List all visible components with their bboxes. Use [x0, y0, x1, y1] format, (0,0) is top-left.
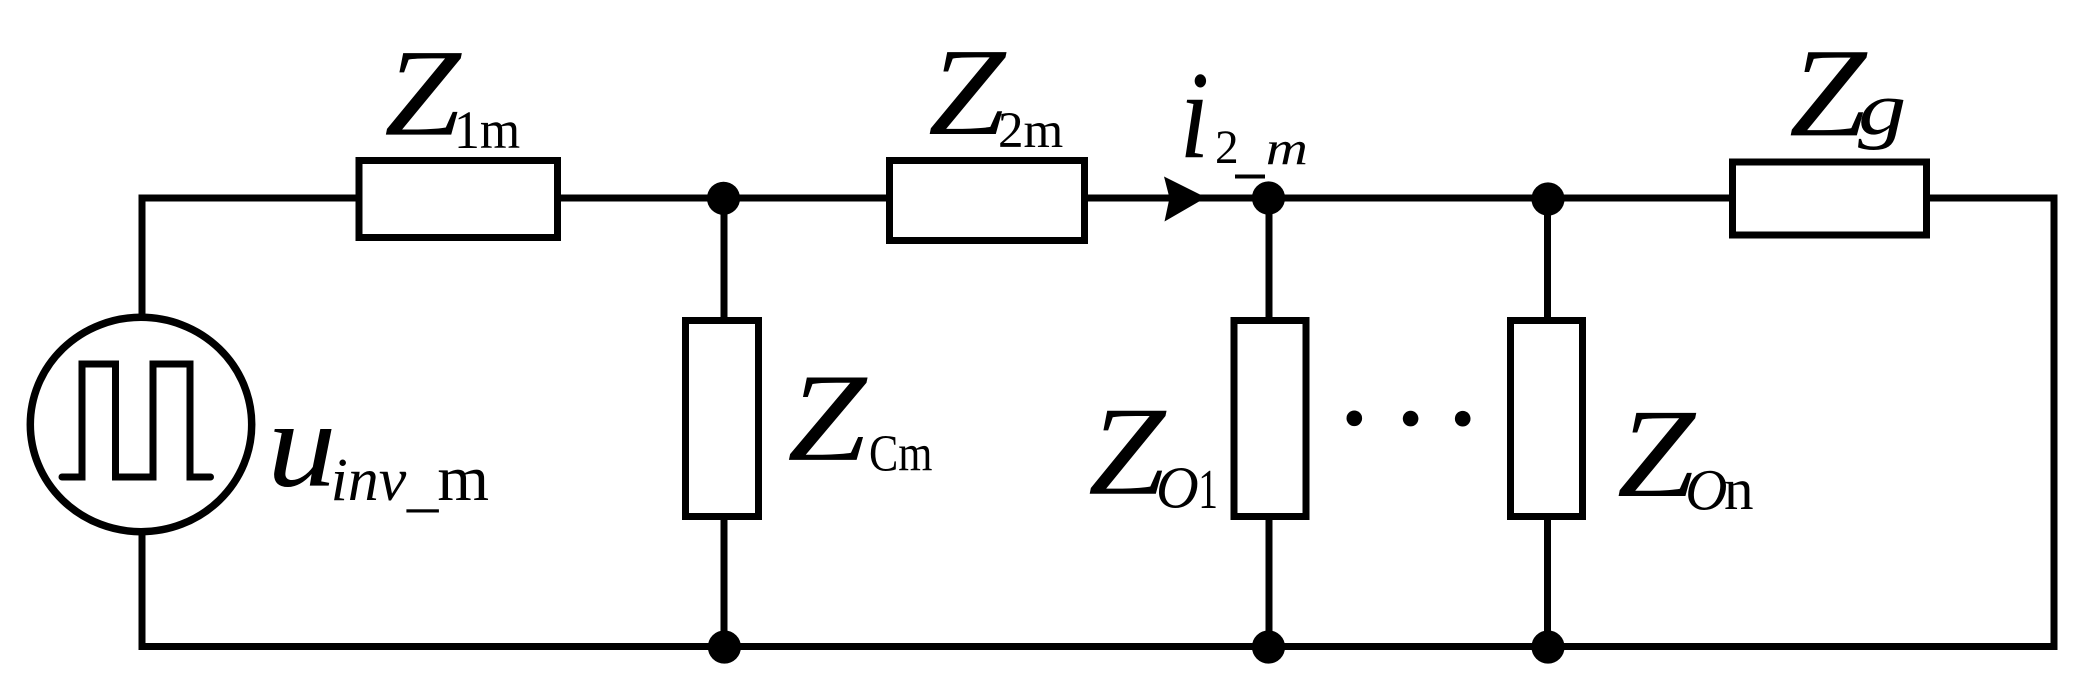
- svg-text:Z: Z: [384, 24, 463, 162]
- svg-text:Cm: Cm: [869, 425, 933, 482]
- ellipsis dots between ZO1 and ZOn: [1347, 411, 1363, 427]
- svg-text:1: 1: [1198, 459, 1218, 521]
- svg-text:Z: Z: [787, 349, 868, 488]
- resistor ZOn: [1511, 321, 1583, 517]
- junction node bottom of ZOn: [1531, 630, 1564, 663]
- svg-text:g: g: [1858, 68, 1906, 151]
- resistor Zg: [1733, 162, 1927, 235]
- wire left side (source branch): [139, 198, 146, 647]
- svg-text:1m: 1m: [454, 100, 520, 160]
- svg-text:O: O: [1685, 458, 1727, 523]
- resistor Z1m: [359, 161, 558, 238]
- svg-text:Z: Z: [1789, 23, 1868, 163]
- wire branch ZOn: [1544, 198, 1551, 647]
- current arrow i2_m: [1164, 177, 1206, 222]
- junction node top of ZO1: [1252, 181, 1285, 214]
- svg-text:m: m: [1266, 122, 1308, 175]
- wire right side (return): [2051, 198, 2058, 647]
- svg-text:2: 2: [1215, 122, 1239, 174]
- svg-text:O: O: [1156, 454, 1199, 520]
- source square-wave symbol: [62, 364, 211, 477]
- resistor ZO1: [1234, 321, 1306, 517]
- resistor Z2m: [890, 161, 1085, 241]
- svg-text:2m: 2m: [998, 102, 1063, 158]
- junction node bottom of ZCm: [708, 630, 741, 663]
- svg-text:u: u: [267, 376, 336, 513]
- wire branch ZO1: [1266, 198, 1273, 647]
- junction node top of ZCm: [707, 182, 740, 215]
- junction node bottom of ZO1: [1252, 630, 1285, 663]
- svg-text:inv: inv: [331, 446, 407, 514]
- wire top rail: [139, 195, 2058, 202]
- junction node top of ZOn: [1531, 182, 1564, 215]
- resistor ZCm: [686, 321, 759, 517]
- wire branch ZCm: [721, 198, 728, 647]
- svg-text:Z: Z: [928, 24, 1007, 162]
- svg-text:m: m: [437, 443, 489, 514]
- svg-text:i: i: [1179, 46, 1209, 184]
- svg-text:n: n: [1724, 456, 1754, 522]
- wire bottom rail: [139, 643, 2058, 650]
- source u_inv_m circle: [30, 317, 251, 531]
